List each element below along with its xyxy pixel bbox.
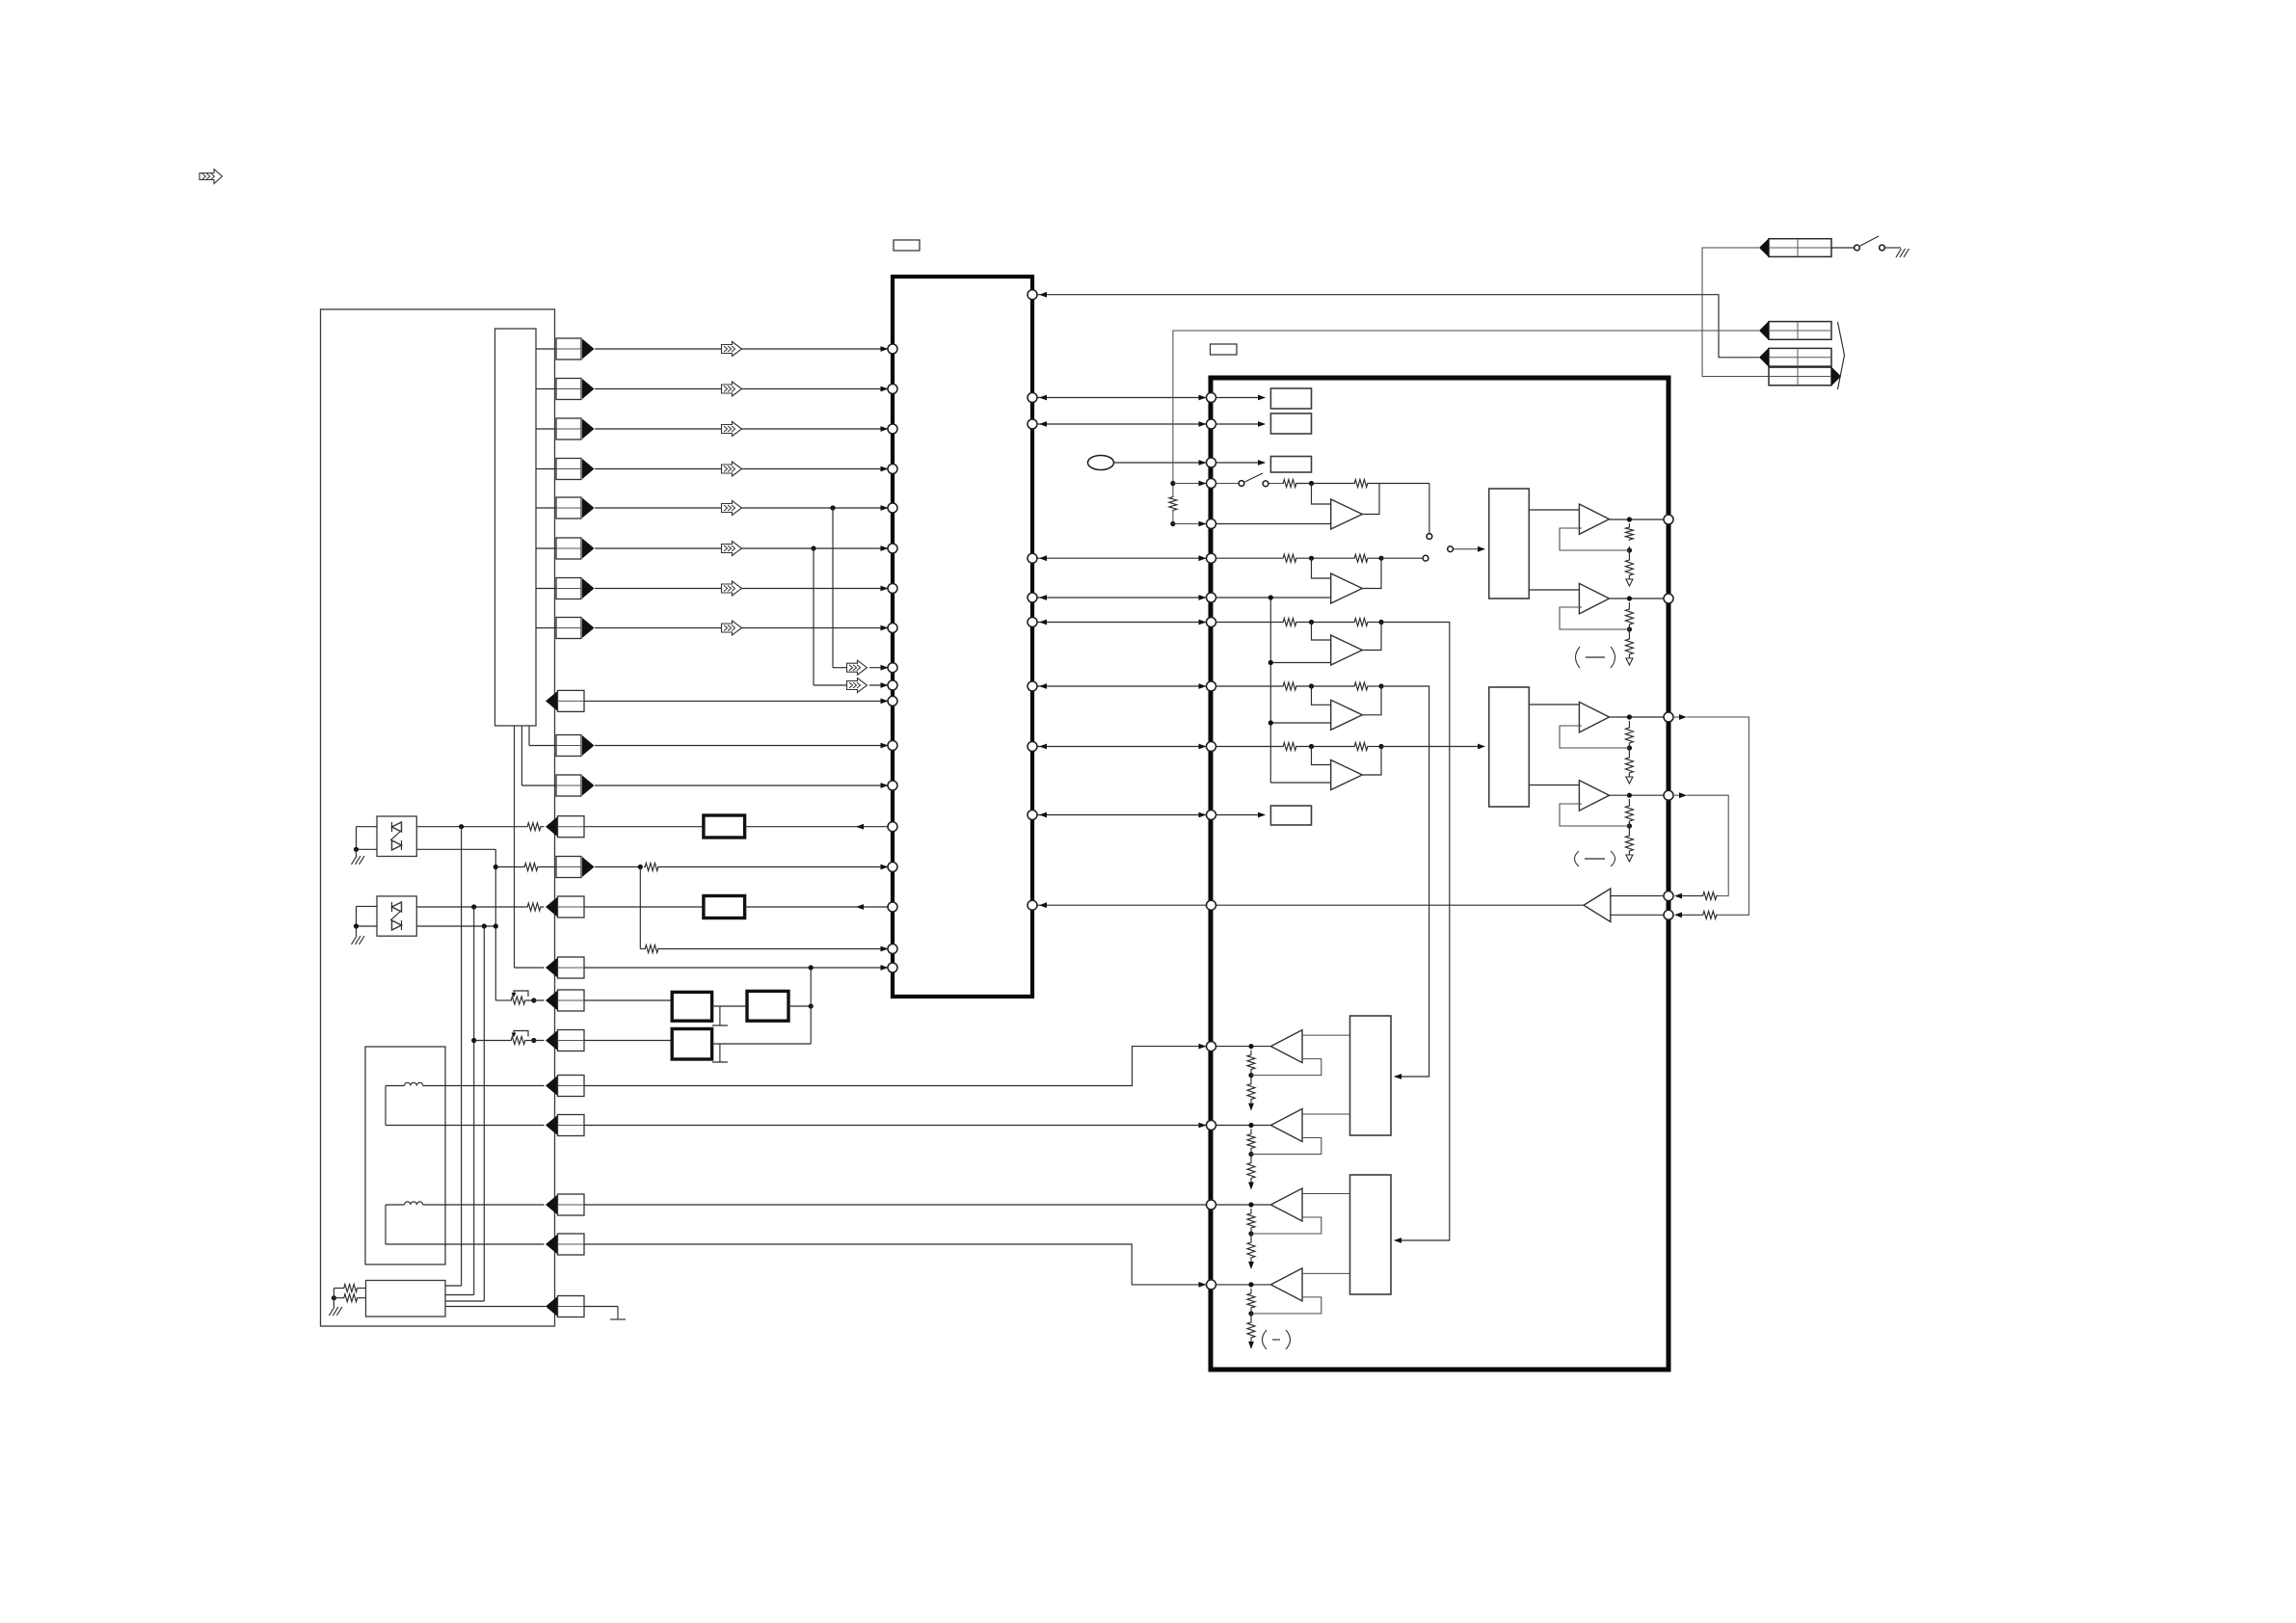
node O2	[1627, 626, 1632, 631]
node OA2	[1627, 596, 1632, 600]
wire SUM1 to OA2	[1529, 589, 1581, 591]
summing box SUM2	[1489, 687, 1530, 807]
wire cellC row	[1215, 622, 1282, 624]
U2 right pin OA2	[1664, 594, 1673, 603]
IC U1 right pin cellC	[1028, 618, 1037, 627]
feedback OA1	[1560, 528, 1629, 550]
connector P4	[556, 459, 581, 480]
wire ribbon stub B	[521, 726, 522, 785]
summing box SUM3	[1350, 1016, 1392, 1135]
trimmer VR1	[510, 997, 526, 1004]
flow chevron row 4	[722, 462, 742, 476]
connector P18	[546, 1076, 558, 1096]
wire CB1 line3	[445, 1300, 484, 1302]
wire P15 to IC	[584, 967, 888, 969]
wire to reg S2	[1215, 423, 1265, 425]
resistor RO3b	[1625, 757, 1633, 774]
label box U1	[894, 240, 920, 251]
wire ribbon stub C	[514, 726, 516, 968]
node bus1	[1268, 595, 1273, 599]
op-amp OPD	[1331, 700, 1363, 730]
ribbon connector block	[495, 329, 537, 726]
op-amp OA5	[1584, 889, 1611, 922]
wire SUM2 to OA4	[1529, 785, 1581, 786]
arrow into IC pin row 1	[881, 346, 889, 352]
wire ribbon to connector row 1	[536, 348, 556, 350]
resistor RAMP2a	[1247, 1133, 1255, 1150]
resistor RE2	[1353, 743, 1369, 751]
gnd arrow AMP2	[1248, 1183, 1254, 1190]
IC U1 pin 10	[888, 680, 897, 690]
wire OA4 loop out	[1673, 792, 1729, 895]
wire U1-U2 cellC	[1036, 622, 1206, 624]
wire row 8 to IC	[595, 627, 888, 629]
filter box FC	[672, 1029, 711, 1060]
feedback AMP1	[1251, 1059, 1322, 1076]
wire ribbon to connector row 5	[536, 507, 556, 509]
switch SW1	[1855, 245, 1860, 251]
connector P11	[556, 775, 581, 796]
register box S4	[1270, 806, 1311, 825]
node O1	[1627, 547, 1632, 552]
wire FC out	[712, 1043, 812, 1045]
node O3	[1627, 745, 1632, 750]
wire row 7 to IC	[595, 588, 888, 590]
IC U1 pin row 4	[888, 465, 897, 474]
register box S3	[1270, 457, 1311, 473]
node AMP42	[1248, 1311, 1253, 1316]
op-amp OPA	[1331, 499, 1363, 529]
U2 right pin OA3	[1664, 712, 1673, 722]
arrow into IC pin row 5	[881, 505, 889, 511]
wire AMP2 out	[1215, 1125, 1270, 1127]
wire ribbon to connector row 7	[536, 588, 556, 590]
wire B to contact	[1381, 557, 1423, 559]
U2 pin S4	[1207, 811, 1216, 820]
wire L1 return	[385, 1086, 387, 1126]
flow chevron row 6	[722, 542, 742, 556]
wire CB1 line2	[445, 1294, 474, 1296]
signal gnd O3	[1626, 777, 1633, 784]
node C2	[1378, 620, 1383, 625]
register box S1	[1270, 388, 1311, 409]
resistor RO1b	[1625, 559, 1633, 576]
wire row 1 to IC	[595, 348, 888, 350]
signal gnd O4	[1626, 855, 1633, 862]
node E2	[1378, 744, 1383, 749]
wire R13 to IC	[659, 866, 888, 868]
wire P9 to IC	[584, 700, 888, 702]
opamp OPD feedback	[1362, 686, 1381, 715]
wire D1 to IC	[745, 826, 888, 828]
flow chevron row 2	[722, 382, 742, 396]
wire U1-U2 cellE	[1036, 746, 1206, 748]
node bus2	[1268, 660, 1273, 665]
legend chevron arrow	[200, 170, 223, 184]
wire FA to FB	[712, 1005, 747, 1007]
feedback AMP2	[1251, 1138, 1322, 1155]
coil L1	[386, 1085, 405, 1087]
trimmer VR2	[510, 1037, 526, 1045]
resistor RO2a	[1625, 608, 1633, 625]
wire AMP2 input	[1302, 1113, 1350, 1115]
transformer box TR1	[365, 1047, 445, 1264]
resistor R15	[644, 945, 659, 953]
wire R20 tail	[1172, 512, 1174, 524]
node feed B	[1170, 521, 1175, 526]
wire P19 to U2	[584, 1125, 1206, 1127]
ground G4	[1896, 249, 1902, 257]
IC U1 pin 12	[888, 741, 897, 751]
flow chevron row 7	[722, 581, 742, 596]
U2 right pin OA4	[1664, 790, 1673, 800]
wire AMP3 input	[1302, 1193, 1350, 1195]
U2 pin cellBlow	[1207, 593, 1216, 602]
IC U1 pin row 7	[888, 584, 897, 594]
resistor RA1	[1282, 480, 1297, 488]
resistor RAMP2b	[1247, 1162, 1255, 1180]
amp AMP4	[1270, 1268, 1302, 1301]
connector P2	[556, 379, 581, 400]
amp AMP1	[1270, 1030, 1302, 1063]
opamp OPB feedback	[1362, 558, 1381, 588]
opamp OPC feedback	[1362, 623, 1381, 651]
wire PC1 bottom out	[416, 848, 495, 850]
wire PC2 lower branch down	[483, 926, 485, 1301]
wire ribbon to connector row 4	[536, 468, 556, 470]
wire row 5 to IC	[595, 507, 888, 509]
arrow into IC pin row 8	[881, 625, 889, 631]
node R16	[334, 1288, 342, 1290]
test point TP1	[1088, 456, 1114, 470]
IC U1 pin 9	[888, 663, 897, 673]
wire tap5 to pin	[869, 667, 888, 669]
resistor R16	[343, 1285, 359, 1292]
feedback AMP4	[1251, 1297, 1322, 1314]
U2 pin swB	[1207, 519, 1216, 529]
connector P15	[546, 958, 558, 978]
wire CB1 to P22	[445, 1306, 546, 1308]
wire P13 to node	[595, 866, 640, 868]
connector CN4	[1769, 367, 1831, 386]
wire AMP4 input	[1302, 1272, 1350, 1274]
wire PC1 out top	[416, 826, 526, 828]
connector P19	[546, 1115, 558, 1135]
gain symbol A2	[1575, 851, 1580, 866]
IC U2 (analog block)	[1211, 378, 1669, 1370]
connector P12	[546, 816, 558, 837]
connector CN2	[1769, 322, 1831, 340]
board outline (left block)	[321, 309, 555, 1326]
resistor RO4a	[1625, 805, 1633, 822]
node N13	[638, 865, 643, 869]
wire P12 to filter D1	[584, 826, 704, 828]
wire cellB row	[1215, 557, 1282, 559]
label box U2	[1211, 344, 1238, 355]
wire P16 to filter A	[584, 999, 672, 1001]
wire cellD row	[1215, 685, 1282, 687]
wire TP1 to U2	[1114, 462, 1207, 464]
resistor RAMP1a	[1247, 1054, 1255, 1071]
connector P10	[556, 735, 581, 757]
IC U1 pin row 1	[888, 344, 897, 354]
node OA4	[1627, 793, 1632, 798]
contact c2	[1423, 555, 1428, 561]
U2 pin amp3	[1207, 1200, 1216, 1210]
op-amp OA2	[1579, 583, 1609, 614]
node C1	[1309, 620, 1314, 625]
filter box D1	[704, 815, 745, 838]
node VR1	[531, 998, 536, 1002]
flow chevron row 3	[722, 422, 742, 437]
wire N13 down	[639, 867, 641, 949]
wire tap row5 down	[832, 508, 834, 668]
resistor RD2	[1353, 682, 1369, 690]
node O4	[1627, 823, 1632, 828]
node PC2 top branch	[471, 904, 476, 909]
wire CN1 to switch	[1831, 247, 1854, 249]
resistor RB1	[1282, 554, 1297, 562]
wire ribbon to connector row 6	[536, 547, 556, 549]
op-amp OA1	[1579, 504, 1609, 534]
wire PC1 left vertical	[356, 827, 358, 850]
resistor R20	[1169, 496, 1177, 512]
signal gnd O1	[1626, 579, 1633, 586]
U2 pin TP	[1207, 458, 1216, 467]
wire row 3 to IC	[595, 428, 888, 430]
opamp OPD upper input	[1312, 686, 1331, 705]
wire U1-U2 S1	[1036, 397, 1206, 399]
wire U1-U2 cellD	[1036, 685, 1206, 687]
wire to reg S3	[1215, 462, 1265, 464]
node A1	[1297, 483, 1353, 485]
opamp OPC upper input	[1312, 623, 1331, 641]
connector P3	[556, 418, 581, 439]
wire P14 to filter D2	[584, 906, 704, 908]
control box CB1	[366, 1281, 446, 1317]
wire AMP1 out	[1215, 1046, 1270, 1048]
amp AMP2	[1270, 1109, 1302, 1142]
gnd arrow AMP3	[1248, 1262, 1254, 1269]
wire SW1 to gnd	[1885, 247, 1901, 249]
wire L2 return	[385, 1205, 387, 1244]
wire AMP3 out	[1215, 1204, 1270, 1206]
node OA3	[1627, 714, 1632, 719]
wire gnd bus	[333, 1289, 334, 1308]
wire P10 to IC	[595, 745, 888, 747]
U2 right pin fb2	[1664, 910, 1673, 919]
opamp OPB upper input	[1312, 558, 1331, 578]
connector P17	[546, 1030, 558, 1051]
resistor R13b	[495, 866, 523, 868]
IC U1 pin row 6	[888, 544, 897, 553]
wire PC1 left bottom	[357, 848, 378, 850]
node OA1	[1627, 517, 1632, 521]
ground G2	[356, 926, 358, 936]
IC U1 pin 13	[888, 781, 897, 790]
wire PC2 left vertical	[356, 906, 358, 926]
feedback AMP3	[1251, 1217, 1322, 1234]
wire CN2 feed	[1173, 331, 1759, 496]
node feed A	[1170, 481, 1175, 486]
wire A out	[1369, 483, 1429, 485]
U2 pin swA	[1207, 479, 1216, 489]
resistor RD1	[1282, 682, 1297, 690]
U2 pin amp1	[1207, 1042, 1216, 1051]
wire ribbon stub A	[528, 726, 530, 746]
wire ribbon to connector row 2	[536, 388, 556, 390]
node AMP22	[1248, 1152, 1253, 1157]
arrow into IC pin row 2	[881, 386, 889, 392]
wire PC2 left top	[357, 905, 378, 907]
wire row 620	[1215, 597, 1331, 599]
photocoupler PC2	[377, 896, 416, 936]
coil L2	[386, 1204, 405, 1206]
gnd arrow AMP4	[1248, 1342, 1254, 1349]
bus opamp inputs	[1269, 598, 1271, 783]
wire U1-U2 S2	[1036, 423, 1206, 425]
resistor R12	[526, 823, 542, 831]
op-amp OPB	[1331, 573, 1363, 603]
connector P20	[546, 1195, 558, 1215]
IC U1 pin 15	[888, 863, 897, 872]
wire to reg S4	[1215, 814, 1265, 816]
node AMP12	[1248, 1073, 1253, 1078]
node PC1 top branch	[459, 824, 464, 829]
wire OA3 out	[1610, 716, 1665, 718]
wire row B lower input	[1215, 523, 1331, 525]
node AMP3	[1248, 1202, 1253, 1207]
IC U1 pin row 5	[888, 503, 897, 513]
IC U1 right pin S4	[1028, 811, 1037, 820]
wire E to sum2	[1381, 746, 1481, 748]
resistor R17	[343, 1294, 359, 1302]
node PC2 branch	[471, 1038, 476, 1043]
IC U1 pin row 3	[888, 424, 897, 434]
feedback OA2	[1560, 607, 1629, 629]
bracket CN group	[1838, 322, 1845, 389]
wire PC2 left bottom	[357, 925, 378, 927]
feedback OA4	[1560, 804, 1629, 826]
IC U1 right pin cellE	[1028, 742, 1037, 752]
wire U1-U2 cellB	[1036, 557, 1206, 559]
connector P6	[556, 538, 581, 559]
wire tap row6 down	[813, 548, 814, 685]
ground T1	[719, 1006, 721, 1025]
connector P5	[556, 497, 581, 519]
resistor RC2	[1353, 619, 1369, 626]
flow chevron row 8	[722, 621, 742, 635]
connector P9	[546, 691, 558, 711]
switch pole SW3	[1448, 546, 1454, 552]
resistor RO2b	[1625, 638, 1633, 655]
opamp OPE upper input	[1312, 747, 1331, 765]
wire PC2 bottom out	[416, 925, 495, 927]
wire L2 to P20	[423, 1204, 545, 1206]
node D1	[1309, 683, 1314, 688]
wire feed to pin A	[1173, 483, 1206, 485]
resistor RAMP4b	[1247, 1321, 1255, 1339]
U2 pin cellD	[1207, 681, 1216, 691]
IC U1 (main processor)	[893, 277, 1032, 997]
node bottom branch 2	[494, 923, 498, 928]
resistor R14	[526, 903, 542, 911]
wire P22 gnd	[584, 1306, 618, 1308]
wire D to sum3	[1381, 686, 1429, 1077]
wire SUM2 to OA3	[1529, 704, 1581, 705]
node AMP1	[1248, 1044, 1253, 1049]
wire PC2 out top	[416, 906, 526, 908]
IC U1 right pin cellD	[1028, 681, 1037, 691]
op-amp OA3	[1579, 702, 1609, 732]
connector P8	[556, 618, 581, 639]
IC U1 right pin S1	[1028, 393, 1037, 403]
wire CB1 line1	[445, 1285, 462, 1287]
resistor R13	[644, 864, 659, 871]
wire tap6 to pin	[869, 684, 888, 686]
IC U1 pin 14	[888, 822, 897, 832]
amp AMP3	[1270, 1188, 1302, 1221]
gnd arrow AMP1	[1248, 1104, 1254, 1111]
wire cellE row	[1215, 746, 1282, 748]
wire AMP1 input	[1302, 1034, 1350, 1036]
opamp OPA feedback	[1362, 484, 1379, 515]
resistor RO3a	[1625, 727, 1633, 744]
arrow into IC pin row 7	[881, 586, 889, 592]
wire P18 to U2	[584, 1047, 1206, 1086]
U2 pin S1	[1207, 393, 1216, 403]
wire row 6 to IC	[595, 547, 888, 549]
flow chevron row 1	[722, 342, 742, 357]
resistor RC1	[1282, 619, 1297, 626]
summing box SUM1	[1489, 489, 1530, 599]
U2 pin cellC	[1207, 618, 1216, 627]
connector P7	[556, 578, 581, 599]
resistor RB2	[1353, 554, 1369, 562]
U2 pin out-left	[1207, 900, 1216, 910]
IC U1 pin row 2	[888, 385, 897, 394]
filter box FA	[672, 992, 711, 1021]
wire ribbon to connector row 3	[536, 428, 556, 430]
contact c1	[1427, 534, 1432, 540]
resistor RE1	[1282, 743, 1297, 751]
node AMP4	[1248, 1282, 1253, 1287]
IC U1 right pin in	[1028, 900, 1037, 910]
IC U1 right pin S2	[1028, 419, 1037, 429]
IC U1 right pin cellBlow	[1028, 593, 1037, 602]
flow chevron tap6	[847, 678, 868, 693]
wire PC1 branch down	[461, 827, 463, 1286]
wire row 2 to IC	[595, 388, 888, 390]
flow chevron row 5	[722, 501, 742, 516]
wire A contact drop	[1428, 484, 1430, 534]
wire C to sum4	[1381, 623, 1450, 1241]
wire U1-U2 cellBlow	[1036, 597, 1206, 599]
resistor RA2	[1353, 480, 1369, 488]
ground T3	[617, 1307, 619, 1320]
wire FB out	[788, 1005, 811, 1007]
node B1	[1309, 556, 1314, 561]
IC U1 pin row 8	[888, 624, 897, 633]
resistor RF2	[1702, 911, 1719, 918]
wire U1-U2 S4	[1036, 814, 1206, 816]
wire AMP4 out	[1215, 1284, 1270, 1286]
op-amp OPC	[1331, 635, 1363, 665]
connector P21	[546, 1235, 558, 1255]
node D2	[1378, 683, 1383, 688]
wire ribbon to connector row 8	[536, 627, 556, 629]
connector P16	[546, 991, 558, 1011]
